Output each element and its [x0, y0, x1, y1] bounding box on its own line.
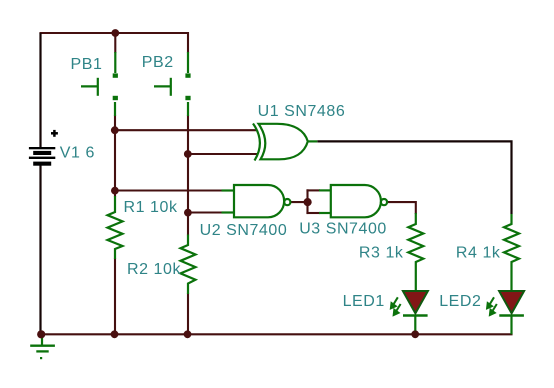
svg-text:U3 SN7400: U3 SN7400 [299, 221, 387, 238]
svg-text:PB1: PB1 [71, 56, 103, 73]
svg-text:PB2: PB2 [142, 54, 174, 71]
svg-text:R1 10k: R1 10k [124, 199, 178, 216]
svg-text:LED1: LED1 [343, 293, 385, 310]
svg-text:U2 SN7400: U2 SN7400 [200, 222, 288, 239]
svg-text:V1 6: V1 6 [60, 145, 95, 162]
svg-text:R4 1k: R4 1k [456, 245, 501, 262]
svg-text:U1 SN7486: U1 SN7486 [258, 103, 346, 120]
svg-text:LED2: LED2 [439, 293, 481, 310]
svg-text:R2 10k: R2 10k [127, 261, 181, 278]
svg-text:R3 1k: R3 1k [359, 245, 404, 262]
